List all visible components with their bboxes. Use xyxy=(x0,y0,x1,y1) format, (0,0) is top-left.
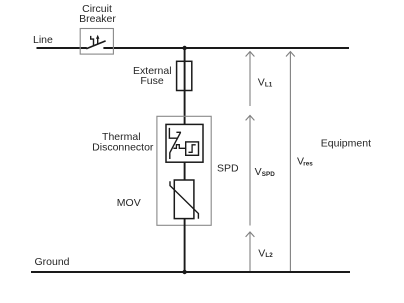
circuit breaker trip hook xyxy=(91,36,94,46)
svg-text:L2: L2 xyxy=(265,252,273,259)
svg-text:Line: Line xyxy=(33,34,53,46)
fuse F external xyxy=(177,61,192,90)
disconnector blade xyxy=(170,132,181,152)
arrow V_SPD xyxy=(249,116,251,226)
svg-text:res: res xyxy=(303,161,313,168)
arrow V_L2 xyxy=(249,232,251,271)
circuit breaker box xyxy=(80,29,113,55)
disconnector step symbol xyxy=(189,145,196,153)
svg-text:Equipment: Equipment xyxy=(321,137,371,149)
SPD box xyxy=(157,116,211,225)
junction dot bottom xyxy=(182,270,186,274)
wire Line bus left segment xyxy=(37,47,87,49)
svg-text:Ground: Ground xyxy=(35,256,70,268)
svg-text:SPD: SPD xyxy=(217,163,239,175)
svg-text:V: V xyxy=(258,247,265,259)
disconnector blade tip tick xyxy=(176,131,181,133)
svg-text:Fuse: Fuse xyxy=(140,75,164,87)
MOV body xyxy=(174,180,194,219)
wire vertical from Line through fuse to SPD xyxy=(184,48,186,124)
disconnector fixed contact L xyxy=(169,128,177,138)
disconnector lower terminal xyxy=(169,152,171,159)
circuit breaker blade xyxy=(86,41,105,49)
arrow V_L1 xyxy=(249,52,251,106)
thermal disconnector box xyxy=(166,124,203,162)
svg-text:V: V xyxy=(255,166,262,178)
svg-text:V: V xyxy=(258,77,265,89)
svg-text:L1: L1 xyxy=(265,81,273,88)
arrow V_res xyxy=(289,52,291,271)
circuit breaker trip arrow xyxy=(97,37,99,44)
wire Line bus right segment xyxy=(103,47,349,49)
disconnector link zigzag xyxy=(173,145,185,149)
wire MOV to Ground xyxy=(184,219,186,272)
wire disconnector to MOV xyxy=(184,162,186,180)
svg-text:MOV: MOV xyxy=(117,197,141,209)
disconnector thermal element box xyxy=(186,142,199,155)
wire Ground bus xyxy=(31,271,350,273)
MOV diagonal with tails xyxy=(170,181,198,218)
svg-text:Breaker: Breaker xyxy=(79,13,116,25)
junction dot top xyxy=(182,46,186,50)
svg-text:Disconnector: Disconnector xyxy=(92,141,154,153)
svg-text:SPD: SPD xyxy=(262,171,275,178)
